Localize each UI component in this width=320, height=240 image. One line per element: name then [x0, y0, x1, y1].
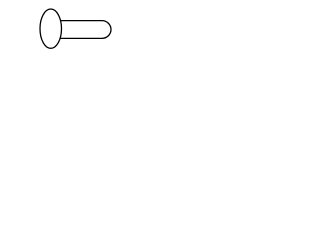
pin head (ellipse) — [40, 9, 62, 48]
pin shank (rounded body) — [58, 21, 111, 39]
